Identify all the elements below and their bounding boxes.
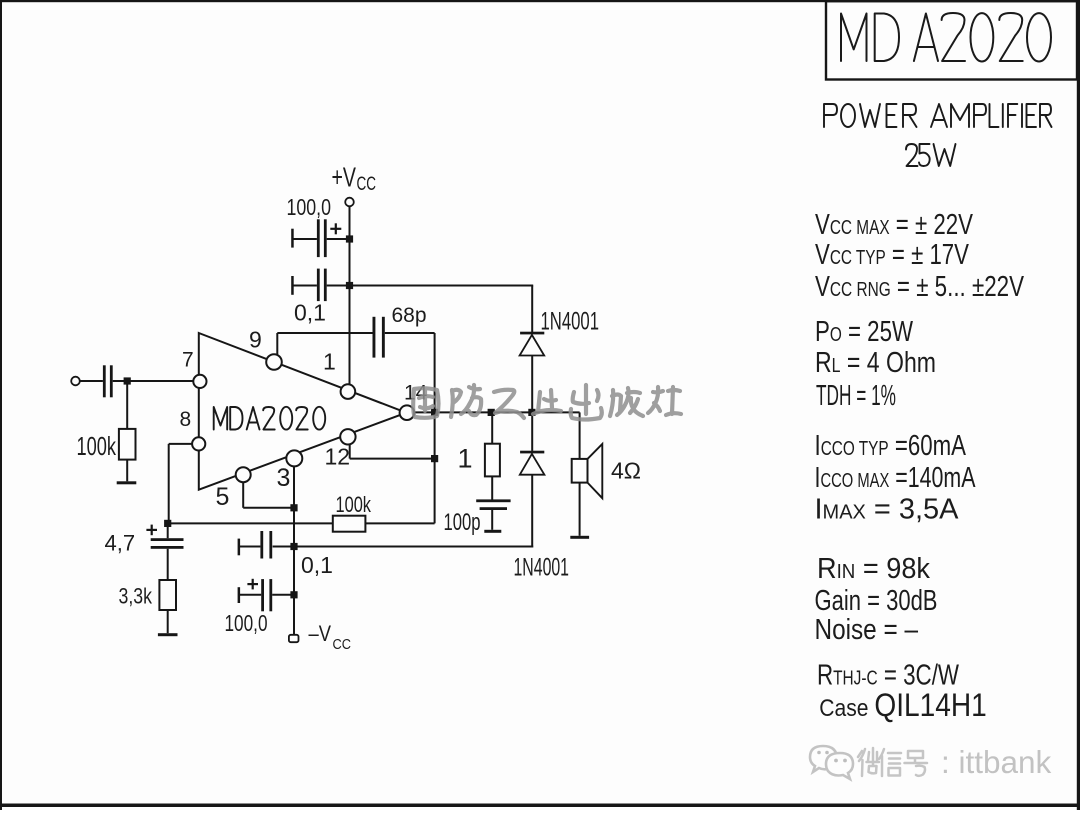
diode D2 1N4001 xyxy=(520,451,544,454)
watermark char ye xyxy=(533,390,561,414)
svg-text:4Ω: 4Ω xyxy=(611,458,641,484)
ground 3,3k xyxy=(158,633,178,636)
capacitor Cin xyxy=(103,365,106,397)
svg-text:68p: 68p xyxy=(392,304,427,327)
wire input xyxy=(71,377,80,386)
wechat icon bubbles xyxy=(810,746,853,779)
svg-text:1N4001: 1N4001 xyxy=(514,554,570,582)
svg-text:100,0: 100,0 xyxy=(225,610,268,636)
svg-text:Noise = –: Noise = – xyxy=(815,614,919,646)
node junction fb-4,7 xyxy=(164,520,171,527)
node junction neg-100,0 xyxy=(290,591,297,598)
watermark char gong xyxy=(494,390,524,418)
wire diode branch lower xyxy=(531,412,533,451)
subtitle POWER AMPLIFIER xyxy=(824,104,1052,127)
node junction fb-out xyxy=(431,455,438,462)
wire +Vcc vertical rail xyxy=(349,207,351,385)
pin circle 7 xyxy=(193,375,206,388)
label MDA2020 inside op-amp xyxy=(214,407,326,430)
title text MDA2020 xyxy=(841,13,1051,62)
svg-text:100p: 100p xyxy=(444,509,481,536)
plus sign 4,7 xyxy=(146,529,157,531)
capacitor 100p xyxy=(476,499,510,502)
wire 68p feedback xyxy=(276,333,278,356)
node junction Vcc-C2 xyxy=(346,282,353,289)
svg-text:1: 1 xyxy=(323,349,336,375)
wire bottom return row xyxy=(273,546,534,548)
resistor R1 1 xyxy=(491,412,493,443)
pin circle 5 xyxy=(236,467,251,482)
node junction out-D xyxy=(528,409,535,416)
pin circle 8 xyxy=(192,437,205,450)
border frame bottom xyxy=(0,804,1080,808)
resistor 3,3k xyxy=(159,580,176,610)
ground speaker xyxy=(570,536,589,539)
capacitor 100,0 lower xyxy=(261,579,264,611)
plus sign C1 xyxy=(330,228,341,230)
svg-text:3,3k: 3,3k xyxy=(119,584,153,609)
svg-text:7: 7 xyxy=(182,349,194,372)
wire output row xyxy=(414,411,580,413)
svg-text:0,1: 0,1 xyxy=(294,300,326,326)
capacitor C2 0,1 xyxy=(317,269,320,302)
watermark char fang xyxy=(451,390,461,417)
svg-text:1: 1 xyxy=(458,444,473,474)
svg-text:5: 5 xyxy=(216,483,230,511)
wire diode branch upper xyxy=(531,286,533,333)
svg-text:9: 9 xyxy=(249,327,262,353)
speaker LS 4ohm xyxy=(579,412,581,459)
svg-text:CC: CC xyxy=(333,636,352,653)
border frame right xyxy=(1077,0,1080,810)
wire pin8 to feedback xyxy=(169,443,192,445)
resistor Rin 100k xyxy=(126,381,128,429)
border frame top xyxy=(0,0,1080,2)
svg-text:CC: CC xyxy=(357,174,377,195)
svg-text:4,7: 4,7 xyxy=(105,531,136,556)
capacitor 4,7 xyxy=(167,523,169,538)
wire feedback vertical xyxy=(434,333,436,523)
wire feedback row xyxy=(168,522,333,524)
border frame left xyxy=(0,0,2,810)
title box border xyxy=(826,1,1077,79)
svg-text:0,1: 0,1 xyxy=(301,552,333,578)
svg-text:100,0: 100,0 xyxy=(287,194,332,220)
node junction out-fb xyxy=(431,409,438,416)
pin circle 14 xyxy=(400,405,415,420)
wire pin3 to -Vcc xyxy=(293,466,295,634)
svg-text:: ittbank: : ittbank xyxy=(941,744,1052,780)
svg-text:PO = 25W: PO = 25W xyxy=(815,316,913,348)
svg-text:100k: 100k xyxy=(336,492,372,517)
svg-text:–V: –V xyxy=(309,621,332,646)
subtitle 25W xyxy=(906,144,956,166)
svg-text:+V: +V xyxy=(332,162,357,193)
svg-text:3: 3 xyxy=(277,464,291,492)
ground Rin xyxy=(117,481,137,484)
capacitor C1 100,0 xyxy=(317,219,320,257)
watermark char guo xyxy=(413,388,438,418)
svg-text:TDH = 1%: TDH = 1% xyxy=(816,380,896,412)
ground 100p xyxy=(484,530,501,533)
capacitor 68p xyxy=(373,317,376,358)
svg-text:100k: 100k xyxy=(77,431,117,461)
plus sign 100,0 lower xyxy=(247,583,258,585)
svg-text:8: 8 xyxy=(180,408,192,431)
svg-text:RIN = 98k: RIN = 98k xyxy=(817,553,930,585)
wire Vcc row to diodes xyxy=(350,285,534,287)
node junction out-R1 xyxy=(488,409,495,416)
watermark char ban xyxy=(610,388,643,416)
resistor Rf 100k xyxy=(333,516,366,532)
node junction Vcc-C1 xyxy=(346,235,353,242)
pin circle 3 xyxy=(286,450,302,466)
pin circle 1 xyxy=(341,384,356,399)
watermark char chu xyxy=(571,385,602,420)
wire pin5 riser xyxy=(242,482,244,508)
terminal +Vcc xyxy=(345,198,354,207)
svg-text:12: 12 xyxy=(325,444,351,470)
node junction pin5-pin3 xyxy=(290,504,297,511)
terminal -Vcc xyxy=(289,635,299,642)
wire pin12 riser xyxy=(349,444,351,458)
svg-text:1N4001: 1N4001 xyxy=(541,308,600,336)
op-amp U1 MDA2020 triangle xyxy=(199,333,406,490)
pin circle 12 xyxy=(340,429,355,444)
footer text weixinhao xyxy=(858,748,927,776)
pin circle 9 xyxy=(266,354,282,370)
svg-text:Gain = 30dB: Gain = 30dB xyxy=(815,585,938,617)
node junction in xyxy=(124,377,131,384)
diode D1 1N4001 xyxy=(520,332,544,335)
capacitor 0,1 lower xyxy=(260,531,263,559)
watermark char she xyxy=(648,387,681,415)
node junction neg-0,1 xyxy=(290,543,297,550)
